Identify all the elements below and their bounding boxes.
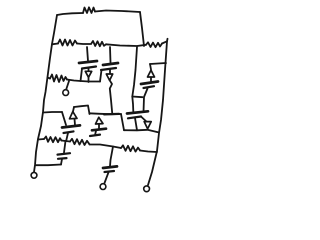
resistor R8 (121, 145, 140, 151)
resistor R7 (70, 139, 90, 145)
transistor Q3 arrow (148, 70, 155, 77)
transistor Q4 gate bar (64, 131, 74, 133)
wire left outer rail (34, 15, 57, 172)
wire junction diagonal (132, 96, 142, 99)
transistor Q3 channel stub (150, 78, 152, 82)
transistor Q6 arrow link (142, 117, 147, 122)
transistor Q4 channel bar (62, 125, 80, 127)
terminal port T2 (63, 90, 69, 96)
terminal port T4 (144, 186, 150, 192)
transistor Q4 channel stub (74, 119, 77, 125)
capacitor C2 lead (110, 147, 113, 167)
transistor Q5 arrow (96, 117, 104, 124)
wire P-row left from rail (43, 111, 62, 114)
wire down to Q4 channel (62, 112, 66, 125)
resistor R2 (58, 40, 77, 46)
capacitor C1 bottom plate (58, 157, 67, 160)
capacitor C1 lead (64, 141, 66, 153)
resistor R1 (83, 7, 95, 13)
wire corner to right rail (162, 41, 167, 43)
wire row2 right (106, 44, 146, 46)
wire row4 to right rail (140, 151, 157, 153)
wire row2 left (52, 43, 58, 46)
transistor Q3 channel bar (141, 82, 158, 85)
transistor Q1 channel bar (82, 67, 96, 69)
transistor Q5 gate bar (90, 135, 100, 136)
capacitor C2 bottom plate (105, 171, 115, 172)
wire row4 left (38, 138, 44, 141)
transistor Q6 channel bar (128, 117, 141, 119)
resistor R6 (44, 137, 62, 143)
transistor Q1 source lead (88, 78, 90, 83)
capacitor C2 top plate (103, 166, 117, 168)
capacitor C1 bottom lead (61, 159, 62, 165)
wire mid node horizontal (89, 112, 121, 115)
capacitor C1 top plate (58, 153, 71, 154)
transistor Q4 drain lead (73, 107, 74, 111)
transistor Q3 drain lead (150, 64, 151, 70)
wire row3 right (67, 80, 100, 82)
wire top rail right (95, 11, 140, 13)
wire Q4 gate lead (66, 133, 68, 140)
resistor R5 (50, 75, 67, 83)
transistor Q6 gate bar (127, 111, 148, 113)
wire thick segment (104, 113, 119, 116)
transistor Q3 gate bar (144, 86, 155, 88)
transistor Q1 arrow (85, 71, 91, 77)
resistor R4 (146, 42, 162, 47)
transistor Q1 drain lead (87, 47, 88, 61)
wire Q4 to Q5 top (74, 106, 90, 115)
wire row4 a (62, 141, 71, 142)
transistor Q4 arrow (70, 112, 78, 119)
wire Q2 source down to node (110, 80, 113, 114)
transistor Q2 channel bar (101, 68, 116, 70)
transistor Q6 arrow (144, 122, 151, 129)
transistor Q2 drain lead (109, 47, 112, 63)
wire node line from row2 down (132, 47, 137, 97)
transistor Q1 source stub left (81, 69, 83, 82)
wire tap to port T2 (66, 81, 69, 90)
wire right side of top loop (140, 12, 144, 46)
capacitor C2 bottom lead (105, 172, 109, 183)
resistor R3 (91, 41, 106, 46)
terminal port T1 (31, 172, 37, 178)
wire row2 mid (77, 43, 90, 46)
transistor Q5 channel bar (92, 129, 106, 131)
wire top rail (57, 13, 83, 15)
transistor Q1 channel stub (88, 68, 90, 72)
wire C1 to left rail (36, 164, 62, 167)
transistor Q5 channel stub (98, 124, 100, 129)
wire row4 b (90, 145, 122, 149)
terminal port T3 (100, 184, 106, 190)
transistor Q5 gate stub (94, 131, 97, 135)
wire Q3 gate lead down (144, 89, 148, 113)
transistor Q6 channel stub (135, 118, 137, 130)
transistor Q2 gate bar (103, 63, 118, 65)
transistor Q1 gate bar (79, 61, 97, 63)
wire row3 (48, 78, 51, 79)
wire lead to Q6 gate bar (132, 97, 133, 112)
transistor Q2 channel stub (109, 70, 111, 74)
transistor Q2 arrow (106, 74, 112, 80)
transistor Q2 source stub left (100, 70, 102, 82)
wire corner down (121, 114, 124, 130)
wire lower node to right rail (124, 130, 158, 132)
wire Q3 drain from right rail (150, 63, 166, 64)
wire right outer rail (148, 39, 168, 185)
